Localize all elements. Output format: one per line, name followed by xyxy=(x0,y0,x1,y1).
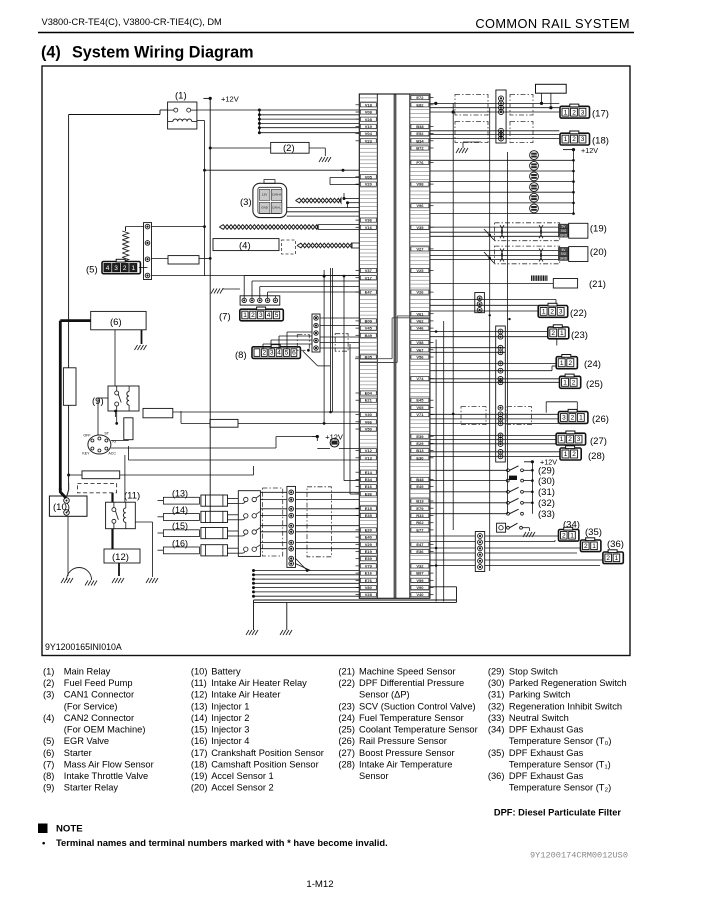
ITV connector (8) xyxy=(252,345,300,359)
svg-text:2: 2 xyxy=(262,350,266,357)
wire bundle relay to ECU xyxy=(258,109,359,135)
wire heater relay xyxy=(111,493,113,502)
svg-text:(2): (2) xyxy=(43,678,54,688)
key switch xyxy=(88,435,111,454)
machine speed sensor (21) xyxy=(553,279,577,289)
resistor box EGR xyxy=(168,256,199,264)
svg-text:(32): (32) xyxy=(538,498,555,509)
small strip S3 xyxy=(475,293,485,313)
svg-text:2: 2 xyxy=(572,380,576,387)
svg-text:(20): (20) xyxy=(590,247,607,258)
svg-text:1: 1 xyxy=(564,136,568,143)
svg-text:V23: V23 xyxy=(365,138,373,143)
svg-text:(22): (22) xyxy=(338,678,355,688)
wire through ECU channel B xyxy=(392,317,430,319)
svg-text:V28: V28 xyxy=(365,117,373,122)
wire bundle to 23 xyxy=(430,330,557,345)
svg-text:E82: E82 xyxy=(416,102,424,107)
svg-text:V62: V62 xyxy=(416,319,424,324)
svg-text:(5): (5) xyxy=(43,736,54,746)
wire bundle accel sensor 2 xyxy=(430,249,559,264)
svg-text:(36): (36) xyxy=(488,771,505,781)
svg-text:Stop Switch: Stop Switch xyxy=(509,667,558,677)
CAN1 connector (3) xyxy=(253,180,287,218)
heater relay (11) xyxy=(106,502,136,529)
svg-text:6: 6 xyxy=(292,350,296,357)
svg-text:+12V: +12V xyxy=(221,95,239,104)
svg-text:V05: V05 xyxy=(365,174,373,179)
connector (18) xyxy=(560,131,590,145)
svg-text:GND: GND xyxy=(261,205,269,209)
wire bundle to connector 18 xyxy=(430,131,559,139)
wire relay row xyxy=(173,411,359,413)
svg-text:E19: E19 xyxy=(365,549,373,554)
svg-text:2: 2 xyxy=(572,109,576,116)
svg-text:E77: E77 xyxy=(416,527,424,532)
svg-text:E49: E49 xyxy=(416,484,424,489)
svg-text:2: 2 xyxy=(551,330,555,337)
svg-text:Main Relay: Main Relay xyxy=(64,667,111,677)
svg-text:(31): (31) xyxy=(538,487,555,498)
wire box to bus xyxy=(541,93,543,103)
svg-text:Intake Air Heater Relay: Intake Air Heater Relay xyxy=(211,678,307,688)
svg-text:(11): (11) xyxy=(124,491,140,502)
wire heater gnd xyxy=(118,563,120,576)
svg-text:CAN-L: CAN-L xyxy=(272,205,281,209)
EGR valve (5) xyxy=(102,259,140,273)
shield crank sensor xyxy=(455,95,488,116)
svg-text:DPF Exhaust Gas: DPF Exhaust Gas xyxy=(509,771,584,781)
figure border xyxy=(42,66,630,656)
wire pair v05 xyxy=(330,178,359,185)
svg-text:(28): (28) xyxy=(338,760,355,770)
svg-text:NOTE: NOTE xyxy=(56,824,83,835)
wire relay out bundle xyxy=(197,109,260,111)
svg-text:2: 2 xyxy=(606,555,610,562)
svg-text:Intake Air Temperature: Intake Air Temperature xyxy=(359,760,452,770)
svg-text:E39: E39 xyxy=(416,434,424,439)
pickup coil 21 xyxy=(531,275,533,281)
svg-text:9Y1200165INI010A: 9Y1200165INI010A xyxy=(45,642,122,652)
junction box top xyxy=(536,84,567,93)
svg-text:CAN2 Connector: CAN2 Connector xyxy=(64,713,134,723)
svg-text:9Y1200174CRM0012US0: 9Y1200174CRM0012US0 xyxy=(530,851,628,861)
svg-text:1: 1 xyxy=(542,309,546,316)
svg-text:(31): (31) xyxy=(488,690,505,700)
svg-text:3: 3 xyxy=(114,265,118,272)
svg-text:(25): (25) xyxy=(338,725,355,735)
svg-text:Temperature Sensor (T₀): Temperature Sensor (T₀) xyxy=(509,736,612,746)
svg-text:E36: E36 xyxy=(365,491,373,496)
svg-text:V12: V12 xyxy=(365,448,373,453)
svg-text:KEY: KEY xyxy=(82,452,90,456)
svg-text:E36: E36 xyxy=(416,549,424,554)
svg-text:V80: V80 xyxy=(365,585,373,590)
wire acc long xyxy=(127,446,129,460)
svg-text:V45: V45 xyxy=(365,326,373,331)
connector (22) xyxy=(538,303,568,317)
svg-text:Injector 1: Injector 1 xyxy=(211,701,249,711)
box right of relay xyxy=(143,408,173,417)
pin strip S7 xyxy=(287,486,296,567)
svg-text:EGR Valve: EGR Valve xyxy=(64,736,109,746)
+12V mid fuse xyxy=(312,436,318,438)
svg-text:GND: GND xyxy=(560,233,568,237)
wire rows mid xyxy=(430,347,505,349)
wire CAN1 extra xyxy=(287,208,360,217)
vertical pin strip S2 xyxy=(496,326,506,462)
svg-text:(28): (28) xyxy=(588,451,605,462)
svg-text:SCV (Suction Control Valve): SCV (Suction Control Valve) xyxy=(359,701,476,711)
svg-text:Starter: Starter xyxy=(64,748,92,758)
wire key to relay xyxy=(111,440,128,442)
svg-text:2: 2 xyxy=(251,312,255,319)
svg-text:Crankshaft Position Sensor: Crankshaft Position Sensor xyxy=(211,748,324,758)
svg-text:E35: E35 xyxy=(365,513,373,518)
svg-text:•: • xyxy=(42,838,46,849)
svg-text:4: 4 xyxy=(267,312,271,319)
svg-text:V20: V20 xyxy=(365,182,373,187)
svg-text:3: 3 xyxy=(259,312,263,319)
svg-text:Starter Relay: Starter Relay xyxy=(64,783,119,793)
svg-text:V27: V27 xyxy=(416,246,424,251)
wire bundle to 25 xyxy=(430,379,560,383)
svg-text:(12): (12) xyxy=(191,690,208,700)
svg-text:V29: V29 xyxy=(365,542,373,547)
svg-text:(14): (14) xyxy=(191,713,208,723)
svg-text:(33): (33) xyxy=(538,509,555,520)
svg-text:+12V: +12V xyxy=(325,433,343,442)
svg-text:(8): (8) xyxy=(43,771,54,781)
wire relay junction xyxy=(98,397,108,399)
svg-text:(24): (24) xyxy=(584,359,601,370)
svg-text:E29: E29 xyxy=(416,441,424,446)
injector drive sensor row group xyxy=(430,151,575,215)
svg-text:V59: V59 xyxy=(416,578,424,583)
wire vertical bus C xyxy=(507,152,509,514)
wire MAF to ECU xyxy=(244,276,359,299)
connector (26) xyxy=(558,409,588,423)
svg-text:E40: E40 xyxy=(365,535,373,540)
wire vertical bus E xyxy=(443,321,445,602)
svg-text:(25): (25) xyxy=(586,379,603,390)
svg-text:Fuel Temperature Sensor: Fuel Temperature Sensor xyxy=(359,713,464,723)
connector (23) xyxy=(548,325,569,339)
svg-text:V25: V25 xyxy=(416,268,424,273)
svg-text:4: 4 xyxy=(106,265,110,272)
svg-text:Coolant Temperature Sensor: Coolant Temperature Sensor xyxy=(359,725,478,735)
svg-text:(8): (8) xyxy=(235,350,247,361)
svg-text:Sensor: Sensor xyxy=(359,771,388,781)
svg-text:Intake Air Heater: Intake Air Heater xyxy=(211,690,280,700)
svg-text:1: 1 xyxy=(563,380,567,387)
svg-text:+12V: +12V xyxy=(581,146,598,155)
svg-text:V90: V90 xyxy=(416,585,424,590)
svg-text:E20: E20 xyxy=(365,527,373,532)
svg-text:Rail Pressure Sensor: Rail Pressure Sensor xyxy=(359,736,447,746)
svg-text:(For OEM Machine): (For OEM Machine) xyxy=(64,725,146,735)
EGR coil xyxy=(122,231,128,235)
wire pump left xyxy=(210,147,271,149)
svg-text:V98: V98 xyxy=(416,182,424,187)
svg-text:Camshaft Position Sensor: Camshaft Position Sensor xyxy=(211,760,318,770)
svg-text:12V: 12V xyxy=(262,192,267,196)
svg-text:V66: V66 xyxy=(365,419,373,424)
svg-text:(16): (16) xyxy=(191,736,208,746)
svg-text:E39: E39 xyxy=(365,556,373,561)
vertical pin strip S1 xyxy=(496,90,506,143)
svg-text:(4): (4) xyxy=(239,240,251,251)
svg-text:(30): (30) xyxy=(538,476,555,487)
svg-text:(27): (27) xyxy=(338,748,355,758)
svg-text:(15): (15) xyxy=(191,725,208,735)
svg-text:Parking Switch: Parking Switch xyxy=(509,690,571,700)
wire vertical bus A xyxy=(452,103,454,530)
neutral switch extra box xyxy=(497,523,506,532)
svg-text:(29): (29) xyxy=(488,667,505,677)
svg-text:V37: V37 xyxy=(365,268,373,273)
wire bundle to connector 17 xyxy=(430,102,559,114)
accel sensor (20) xyxy=(558,247,568,251)
starter (6) xyxy=(91,311,146,329)
resistor below relay xyxy=(124,418,133,440)
MAF pin row xyxy=(240,296,280,305)
svg-text:System Wiring Diagram: System Wiring Diagram xyxy=(72,44,254,62)
svg-text:Temperature Sensor (T₂): Temperature Sensor (T₂) xyxy=(509,783,611,793)
connector (25) xyxy=(560,374,581,388)
svg-text:Regeneration Inhibit Switch: Regeneration Inhibit Switch xyxy=(509,701,622,711)
svg-text:2: 2 xyxy=(584,543,588,550)
svg-text:E76: E76 xyxy=(365,578,373,583)
wire CAN1 twisted xyxy=(296,198,342,203)
svg-text:Injector 2: Injector 2 xyxy=(211,713,249,723)
svg-text:E30: E30 xyxy=(416,455,424,460)
wire bundle to 26 xyxy=(430,402,577,424)
wire vertical bus B xyxy=(489,108,491,571)
wire box2 xyxy=(238,422,359,424)
svg-text:5: 5 xyxy=(275,312,279,319)
svg-text:V74: V74 xyxy=(416,376,424,381)
svg-text:V71: V71 xyxy=(416,412,424,417)
svg-text:(17): (17) xyxy=(592,109,609,120)
svg-text:V17: V17 xyxy=(365,275,373,280)
svg-text:1: 1 xyxy=(560,360,564,367)
wire battery thick in xyxy=(60,488,66,498)
wire ITV to strip xyxy=(263,318,359,350)
wire battery cable thick xyxy=(60,319,90,322)
svg-text:2: 2 xyxy=(562,532,566,539)
wire relay coil return xyxy=(197,120,205,122)
connector (34) xyxy=(559,527,579,541)
wire to 21 xyxy=(430,282,553,284)
svg-text:V46: V46 xyxy=(416,326,424,331)
svg-text:SIG: SIG xyxy=(561,252,567,256)
svg-text:B13: B13 xyxy=(416,499,424,504)
svg-text:(7): (7) xyxy=(43,760,54,770)
svg-text:(19): (19) xyxy=(590,224,607,235)
switch group 29-33 xyxy=(430,466,555,520)
svg-text:3: 3 xyxy=(559,309,563,316)
svg-text:(9): (9) xyxy=(43,783,54,793)
svg-text:(18): (18) xyxy=(191,760,208,770)
svg-text:ACC: ACC xyxy=(108,452,116,456)
svg-text:(34): (34) xyxy=(488,725,505,735)
svg-text:Machine Speed Sensor: Machine Speed Sensor xyxy=(359,667,456,677)
shield accel1 xyxy=(495,223,560,241)
ECU pin stubs xyxy=(356,98,434,595)
junction MAF xyxy=(323,275,326,278)
svg-text:(11): (11) xyxy=(191,678,207,688)
svg-text:OFF: OFF xyxy=(83,434,91,438)
svg-text:Accel Sensor 1: Accel Sensor 1 xyxy=(211,771,274,781)
ground MAF xyxy=(223,288,240,290)
ground bottom-left xyxy=(246,630,258,635)
svg-text:2: 2 xyxy=(123,265,127,272)
wire key ig xyxy=(111,447,276,449)
CAN2 connector (4) xyxy=(213,239,279,251)
wire bundle to 22 xyxy=(430,300,556,321)
svg-text:B49: B49 xyxy=(365,333,373,338)
svg-text:V96: V96 xyxy=(416,203,424,208)
svg-text:(21): (21) xyxy=(338,667,355,677)
svg-text:V58: V58 xyxy=(416,340,424,345)
svg-text:(7): (7) xyxy=(219,312,231,323)
svg-text:V28: V28 xyxy=(365,592,373,597)
svg-text:B13: B13 xyxy=(416,448,424,453)
svg-text:(4): (4) xyxy=(41,44,61,62)
svg-text:V19: V19 xyxy=(365,124,373,129)
shield cam sensor xyxy=(455,122,488,143)
svg-text:1: 1 xyxy=(579,415,583,422)
svg-text:Mass Air Flow Sensor: Mass Air Flow Sensor xyxy=(64,760,154,770)
svg-text:1: 1 xyxy=(560,330,564,337)
vertical pin strip S4 xyxy=(475,532,484,572)
dashed box above battery xyxy=(78,483,117,492)
svg-text:1: 1 xyxy=(243,312,247,319)
svg-text:Sensor (ΔP): Sensor (ΔP) xyxy=(359,690,410,700)
svg-text:Neutral Switch: Neutral Switch xyxy=(509,713,569,723)
svg-text:(10): (10) xyxy=(191,667,208,677)
svg-text:B38: B38 xyxy=(416,124,424,129)
note block xyxy=(38,824,48,834)
fuel feed pump (2) xyxy=(271,142,309,153)
svg-text:V13: V13 xyxy=(365,455,373,460)
svg-text:2: 2 xyxy=(568,436,572,443)
wire fuse xyxy=(68,133,70,368)
svg-text:SIG: SIG xyxy=(561,229,567,233)
svg-text:(20): (20) xyxy=(191,783,208,793)
svg-text:COMMON RAIL SYSTEM: COMMON RAIL SYSTEM xyxy=(475,16,630,31)
svg-text:(3): (3) xyxy=(43,690,54,700)
svg-text:V26: V26 xyxy=(416,290,424,295)
wire +12V bus vertical xyxy=(209,98,211,523)
svg-text:B34: B34 xyxy=(416,138,424,143)
shield ITV xyxy=(297,335,309,351)
wire ITV diag xyxy=(303,351,318,366)
svg-text:DPF Exhaust Gas: DPF Exhaust Gas xyxy=(509,725,584,735)
fuse symbol mid xyxy=(330,438,339,447)
svg-text:Fuel Feed Pump: Fuel Feed Pump xyxy=(64,678,133,688)
svg-text:Boost Pressure Sensor: Boost Pressure Sensor xyxy=(359,748,455,758)
svg-text:1: 1 xyxy=(592,543,596,550)
svg-text:(26): (26) xyxy=(338,736,355,746)
svg-text:(35): (35) xyxy=(488,748,505,758)
wire EGR strip right2 xyxy=(152,257,169,259)
svg-text:1: 1 xyxy=(560,436,564,443)
svg-text:R33: R33 xyxy=(416,513,424,518)
long box lower xyxy=(82,471,120,479)
svg-text:(4): (4) xyxy=(43,713,54,723)
wire EGR strip right1 xyxy=(152,226,205,228)
shield accel2 xyxy=(495,246,560,264)
+12V main xyxy=(203,97,210,99)
connector (17) xyxy=(560,104,590,118)
injector connector box xyxy=(238,491,260,557)
+12V switch bus xyxy=(531,460,534,463)
svg-text:(30): (30) xyxy=(488,678,505,688)
svg-text:V3800-CR-TE4(C), V3800-CR-TIE4: V3800-CR-TE4(C), V3800-CR-TIE4(C), DM xyxy=(42,17,222,27)
CAN2 stub dashed xyxy=(282,240,296,254)
svg-text:V35: V35 xyxy=(416,225,424,230)
wire through ECU channel A xyxy=(397,315,430,317)
box 2 right xyxy=(210,419,238,427)
svg-text:V50: V50 xyxy=(365,427,373,432)
svg-text:E15: E15 xyxy=(365,506,373,511)
svg-text:5: 5 xyxy=(285,350,289,357)
svg-text:(19): (19) xyxy=(191,771,208,781)
ground bottom-right xyxy=(280,630,292,635)
svg-text:V05: V05 xyxy=(416,405,424,410)
wire pump right gnd xyxy=(309,147,325,149)
injector group 13-16 xyxy=(158,489,239,556)
svg-text:V16: V16 xyxy=(365,225,373,230)
svg-text:E04: E04 xyxy=(365,391,373,396)
svg-text:2: 2 xyxy=(571,415,575,422)
svg-text:3: 3 xyxy=(577,436,581,443)
svg-text:3: 3 xyxy=(581,109,585,116)
svg-text:B09: B09 xyxy=(365,319,373,324)
svg-text:V67: V67 xyxy=(416,347,424,352)
svg-text:B48: B48 xyxy=(416,477,424,482)
svg-text:Terminal names and terminal nu: Terminal names and terminal numbers mark… xyxy=(56,837,388,848)
svg-text:E16: E16 xyxy=(365,571,373,576)
svg-text:2: 2 xyxy=(572,136,576,143)
svg-text:(23): (23) xyxy=(338,701,355,711)
svg-text:V79: V79 xyxy=(365,563,373,568)
connector (35) xyxy=(581,538,601,552)
wire ECU bottom bus xyxy=(254,599,457,601)
wire bus ground return to ECU xyxy=(252,569,359,598)
svg-text:R62: R62 xyxy=(416,520,424,525)
svg-text:Injector 4: Injector 4 xyxy=(211,736,249,746)
wire EGR top xyxy=(125,227,127,231)
svg-text:3: 3 xyxy=(270,350,274,357)
header rule xyxy=(38,32,634,34)
svg-text:(5): (5) xyxy=(86,265,98,276)
svg-text:(3): (3) xyxy=(240,197,252,208)
starter relay (9) xyxy=(108,386,139,411)
wire pair to 36 xyxy=(430,559,475,561)
wire relay 11 right xyxy=(135,521,152,523)
battery (10) xyxy=(49,496,87,516)
svg-text:Temperature Sensor (T₁): Temperature Sensor (T₁) xyxy=(509,760,611,770)
connector (24) xyxy=(556,355,577,369)
svg-text:(6): (6) xyxy=(110,317,122,328)
svg-text:2: 2 xyxy=(568,360,572,367)
shield rail sensor xyxy=(461,407,486,425)
wire bundle to 28 xyxy=(430,452,562,457)
wire relay left link xyxy=(69,114,160,116)
